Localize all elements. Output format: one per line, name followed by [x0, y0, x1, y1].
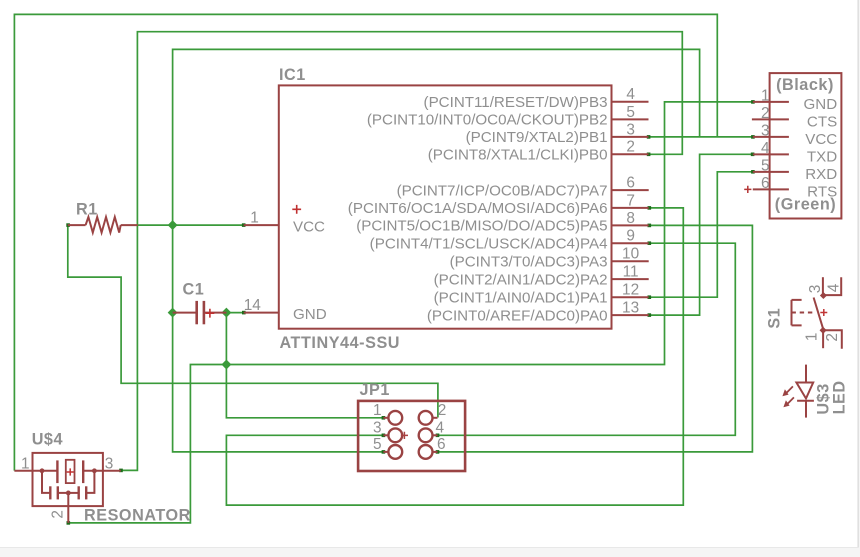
JP1 pin 2 — [419, 411, 433, 425]
junction at R1/VCC vertical — [168, 220, 178, 230]
wire GND: C1 right junction to IC pin 14 — [226, 312, 243, 314]
FTDI pin 4 line — [753, 153, 789, 155]
svg-text:3: 3 — [105, 456, 114, 473]
JP1 body — [358, 401, 465, 471]
U$3 anode lead — [805, 365, 807, 383]
FTDI pin numbers — [761, 87, 770, 191]
svg-text:GND: GND — [293, 306, 327, 323]
svg-text:(PCINT7/ICP/OC0B/ADC7)PA7: (PCINT7/ICP/OC0B/ADC7)PA7 — [397, 182, 608, 199]
wire GND branch: C1 right down through junction to JP1 pin1 — [226, 313, 383, 418]
wire SCK: IC pin9 right, down to JP1 pin4 — [437, 243, 735, 435]
U$4 cap left — [42, 471, 50, 493]
svg-text:C1: C1 — [183, 281, 205, 299]
wire end dots — [66, 100, 754, 525]
svg-text:RTS: RTS — [807, 183, 837, 200]
wire VCC: R1 right to IC pin 1 — [138, 224, 244, 226]
svg-text:3: 3 — [373, 419, 382, 436]
svg-text:3: 3 — [761, 122, 770, 139]
svg-text:6: 6 — [761, 175, 770, 192]
svg-text:10: 10 — [622, 246, 639, 263]
svg-text:5: 5 — [761, 157, 770, 174]
svg-text:1: 1 — [250, 210, 259, 227]
wire RXD: FTDI RXD left, down to IC pin12 — [649, 172, 753, 297]
S1 origin cross — [820, 309, 827, 316]
S1 actuator dashed link — [792, 312, 814, 314]
svg-text:VCC: VCC — [805, 131, 837, 148]
svg-text:RESONATOR: RESONATOR — [84, 507, 191, 525]
svg-text:(PCINT11/RESET/DW)PB3: (PCINT11/RESET/DW)PB3 — [424, 94, 608, 111]
svg-text:GND: GND — [804, 96, 838, 113]
svg-text:2: 2 — [50, 510, 67, 519]
S1 pin 3 — [822, 277, 824, 295]
U$4 pin 1 lead — [14, 470, 57, 472]
U$4 crystal left plate — [56, 460, 58, 483]
LED U$3 — [796, 365, 814, 418]
wire MISO: IC pin8 right, down to JP1 pin6 — [437, 225, 752, 452]
FTDI body — [770, 73, 842, 218]
FTDI pin 2 line — [752, 118, 789, 120]
svg-text:11: 11 — [623, 264, 639, 281]
C1 origin cross — [206, 309, 215, 318]
S1 pin 2 — [823, 330, 842, 348]
svg-text:(PCINT1/AIN0/ADC1)PA1: (PCINT1/AIN0/ADC1)PA1 — [434, 289, 608, 306]
IC1 pin 14 stub — [244, 312, 279, 314]
IC1 right pin stubs 6-13 — [612, 190, 649, 315]
svg-text:13: 13 — [622, 300, 639, 317]
svg-text:3: 3 — [807, 285, 824, 294]
wire MOSI: IC pin7 right, down, along bottom, up to JP1 pin3 — [226, 208, 683, 505]
IC1 pin 1 stub — [244, 224, 279, 226]
JP1 pin 6 — [419, 445, 433, 459]
JP1 pin numbers — [373, 402, 446, 453]
svg-text:R1: R1 — [76, 201, 98, 219]
junction at C1 left — [168, 308, 178, 318]
svg-text:S1: S1 — [766, 308, 784, 329]
U$3 emission arrow 1 — [787, 386, 793, 392]
U$4 pin 2 lead — [67, 493, 69, 523]
wire VCC outer loop: top-left around to FTDI VCC column — [14, 14, 717, 470]
svg-text:(PCINT2/AIN1/ADC2)PA2: (PCINT2/AIN1/ADC2)PA2 — [434, 271, 608, 288]
JP1 pin 4 — [419, 428, 433, 442]
svg-text:14: 14 — [244, 297, 262, 314]
svg-text:CTS: CTS — [807, 113, 837, 130]
U$3 triangle — [796, 383, 813, 399]
U$4 pin numbers — [21, 456, 113, 473]
wire VCC loop: left vertical through junctions down to JP1 pin5 row, across top, down to VCC row — [173, 49, 700, 452]
IC1 ATTINY44 — [244, 85, 649, 328]
svg-text:(PCINT10/INT0/OC0A/CKOUT)PB2: (PCINT10/INT0/OC0A/CKOUT)PB2 — [367, 112, 608, 129]
svg-text:5: 5 — [373, 436, 382, 453]
wire VCC row: PB1 pin3 stub to FTDI VCC pin — [649, 136, 753, 138]
U$4 node dots — [40, 468, 45, 473]
svg-text:(PCINT4/T1/SCL/USCK/ADC4)PA4: (PCINT4/T1/SCL/USCK/ADC4)PA4 — [370, 235, 608, 252]
svg-text:6: 6 — [626, 175, 635, 192]
S1 pin 4 — [823, 277, 841, 295]
U$4 pin 3 lead — [83, 470, 121, 472]
svg-text:4: 4 — [761, 140, 770, 157]
FTDI pin 1 line — [753, 101, 789, 103]
svg-text:7: 7 — [626, 192, 635, 209]
wire TXD: FTDI TXD left, down to IC pin13 — [649, 154, 753, 315]
connector JP1 — [358, 401, 465, 471]
U$3 cathode bar — [797, 400, 814, 402]
switch S1 — [792, 277, 842, 349]
svg-text:TXD: TXD — [807, 148, 837, 165]
FTDI header — [752, 73, 841, 218]
svg-text:4: 4 — [436, 419, 445, 436]
svg-text:4: 4 — [826, 283, 843, 292]
S1 actuator bracket — [792, 300, 802, 326]
svg-text:5: 5 — [626, 104, 635, 121]
svg-text:(PCINT3/T0/ADC3)PA3: (PCINT3/T0/ADC3)PA3 — [450, 254, 608, 271]
svg-text:2: 2 — [824, 333, 841, 342]
svg-text:(PCINT5/OC1B/MISO/DO/ADC5)PA5: (PCINT5/OC1B/MISO/DO/ADC5)PA5 — [356, 218, 607, 235]
svg-text:(PCINT6/OC1A/SDA/MOSI/ADC6)PA6: (PCINT6/OC1A/SDA/MOSI/ADC6)PA6 — [348, 200, 608, 217]
svg-text:(Black): (Black) — [776, 76, 834, 94]
FTDI pin 3 line — [753, 136, 789, 138]
wire XTAL1 loop: resonator pin3 up, across top, down to PB0 row — [121, 32, 683, 471]
FTDI origin cross — [744, 186, 751, 193]
svg-text:1: 1 — [373, 402, 382, 419]
FTDI pin 5 line — [753, 171, 789, 173]
svg-text:3: 3 — [626, 121, 635, 138]
svg-text:U$4: U$4 — [32, 430, 63, 448]
U$3 emission arrow 2 — [788, 397, 794, 403]
junction at GND rail — [221, 360, 231, 370]
wire GND: FTDI GND left, down, left, down to resonator pin2 — [68, 102, 753, 523]
svg-text:4: 4 — [626, 86, 635, 103]
FTDI pin labels — [804, 96, 838, 200]
svg-text:1: 1 — [761, 87, 770, 104]
svg-text:RXD: RXD — [805, 166, 837, 183]
svg-text:2: 2 — [438, 402, 447, 419]
resistor R1 — [68, 217, 138, 233]
junction at C1 right — [221, 308, 231, 318]
svg-text:IC1: IC1 — [279, 66, 306, 84]
U$4 origin cross — [67, 468, 74, 475]
JP1 pin 5 — [388, 445, 402, 459]
svg-text:LED: LED — [831, 380, 849, 414]
svg-text:(PCINT0/AREF/ADC0)PA0: (PCINT0/AREF/ADC0)PA0 — [427, 307, 608, 324]
JP1 pin 3 — [388, 428, 402, 442]
IC1 right pin stubs 4,5,3,2 — [612, 102, 649, 155]
svg-text:JP1: JP1 — [360, 381, 390, 399]
svg-text:ATTINY44-SSU: ATTINY44-SSU — [280, 334, 401, 352]
svg-text:2: 2 — [626, 139, 635, 156]
svg-text:(PCINT9/XTAL2)PB1: (PCINT9/XTAL2)PB1 — [466, 129, 608, 146]
capacitor C1 — [173, 301, 227, 324]
svg-text:(PCINT8/XTAL1/CLKI)PB0: (PCINT8/XTAL1/CLKI)PB0 — [428, 147, 608, 164]
svg-text:1: 1 — [804, 333, 821, 342]
IC1 origin cross — [292, 205, 301, 214]
svg-text:9: 9 — [626, 228, 635, 245]
svg-text:12: 12 — [622, 282, 639, 299]
IC1 pin numbers — [244, 86, 639, 316]
JP1 pin 1 — [388, 411, 402, 425]
IC1 pin labels right side — [348, 94, 608, 324]
U$4 crystal right plate — [82, 460, 84, 483]
U$4 body — [33, 453, 103, 506]
S1 pin 1 — [822, 330, 824, 348]
svg-text:8: 8 — [626, 210, 635, 227]
U$3 cathode lead — [805, 401, 807, 418]
U$4 crystal body — [66, 460, 75, 483]
JP1 origin cross — [401, 432, 408, 439]
wire RESET: R1 left down/right/down to JP1 pin2 — [68, 225, 438, 417]
svg-text:6: 6 — [437, 436, 446, 453]
svg-text:2: 2 — [761, 105, 770, 122]
S1 lever — [814, 298, 824, 331]
U$4 cap right — [86, 471, 94, 493]
svg-text:1: 1 — [21, 456, 30, 473]
IC1 body — [279, 85, 612, 328]
S1 pin numbers — [804, 283, 843, 341]
svg-text:VCC: VCC — [293, 219, 325, 236]
S1 contact dots — [820, 292, 827, 299]
FTDI pin 6 line — [753, 188, 789, 190]
resonator U$4 — [14, 453, 120, 523]
